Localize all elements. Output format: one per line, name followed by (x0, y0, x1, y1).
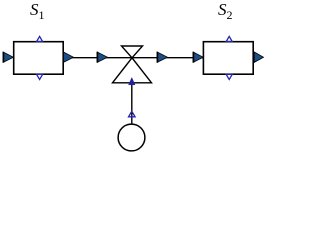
auxiliary variable circle (118, 124, 145, 151)
label S2 (218, 1, 233, 18)
arrowhead: inflow into S2 (left edge) (193, 52, 203, 62)
hollow blue triangle on top of S1 (37, 36, 43, 41)
hollow blue triangle below S2 (226, 74, 232, 79)
wire: vertical link from auxiliary circle to valve (131, 83, 133, 124)
arrowhead: mid-line between valve and S2 (157, 52, 167, 62)
hollow blue triangle on link above circle (129, 111, 136, 117)
arrowhead: inflow into S1 (left edge) (3, 52, 13, 62)
stock S2 rectangle (203, 42, 253, 74)
wire: flow line from S1 to S2 through valve (63, 57, 203, 59)
arrowhead: mid-line between S1 and valve (97, 52, 107, 62)
arrowhead: outflow from S2 (right edge) (254, 52, 263, 62)
arrowhead: solid navy arrow pointing up at valve bottom (129, 78, 135, 85)
valve bottom triangle (113, 58, 152, 83)
valve top triangle (122, 46, 143, 58)
label S1 (30, 1, 45, 18)
hollow blue triangle below S1 (37, 74, 43, 79)
arrowhead: outflow from S1 (right edge) (64, 52, 74, 62)
stock S1 rectangle (14, 42, 64, 74)
hollow blue triangle on top of S2 (226, 36, 232, 41)
